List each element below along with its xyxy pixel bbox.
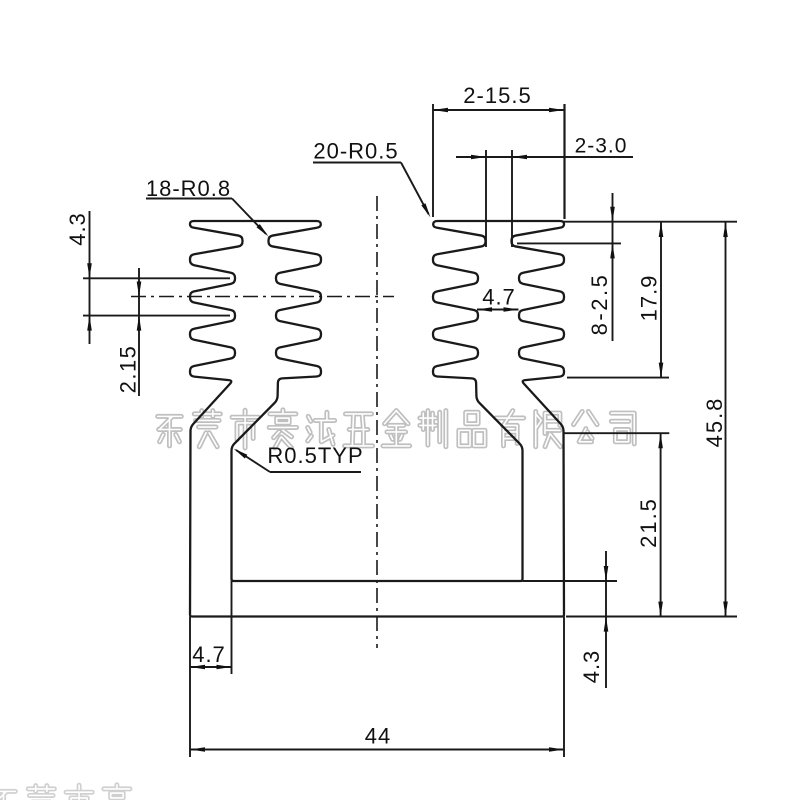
dim 2-15.5 arrow left — [433, 108, 448, 113]
label 18-R0.8 arrow — [256, 224, 268, 236]
svg-text:4.3: 4.3 — [579, 650, 604, 684]
horizontal centerline — [131, 296, 394, 298]
svg-text:4.7: 4.7 — [192, 642, 226, 667]
label R0.5TYP underline — [270, 471, 361, 473]
dim 4.7B arrow right — [217, 665, 232, 670]
dim 4.7B extension line — [231, 581, 233, 674]
svg-text:2-15.5: 2-15.5 — [463, 83, 531, 108]
label 20-R0.5 arrow — [421, 203, 430, 217]
dim 2-15.5 arrow right — [549, 108, 564, 113]
dim 8-2.5 arrow upper — [610, 207, 615, 222]
svg-text:4.7: 4.7 — [482, 285, 516, 310]
dim 21.5 extension line — [564, 432, 669, 434]
dim 44 line — [190, 749, 564, 751]
dim 21.5 line — [660, 433, 662, 616]
vertical centerline — [376, 196, 378, 648]
dim 2-15.5 line — [433, 109, 564, 111]
dim 45.8 arrow upper — [723, 222, 728, 237]
dim 8-2.5 arrow lower — [610, 243, 615, 258]
dim 2-3.0 line — [456, 156, 633, 158]
fin-bottom extension line — [567, 377, 669, 379]
dim 4.7B arrow left — [190, 665, 205, 670]
dim 4.3B line — [605, 551, 607, 688]
dim 4.7B wall extension left — [189, 617, 191, 758]
label R0.5TYP leader — [236, 450, 270, 472]
heatsink profile outline — [190, 221, 564, 617]
svg-text:20-R0.5: 20-R0.5 — [313, 139, 398, 164]
svg-text:8-2.5: 8-2.5 — [587, 273, 612, 336]
svg-text:18-R0.8: 18-R0.8 — [146, 176, 231, 201]
base bottom extension line — [566, 616, 737, 618]
dim 21.5 arrow upper — [658, 433, 663, 448]
dim 4.3 extension line lower — [83, 315, 230, 317]
dim 2-3.0 extension line right — [511, 150, 513, 247]
svg-text:44: 44 — [365, 724, 391, 749]
dim 45.8 arrow lower — [723, 602, 728, 617]
label 20-R0.5 leader — [401, 163, 429, 215]
dim 4.7 line — [477, 309, 519, 311]
dim 4.7 arrow left — [477, 307, 492, 312]
svg-text:45.8: 45.8 — [702, 397, 727, 448]
watermark company name — [158, 410, 635, 448]
dim 2-15.5 extension line right — [563, 104, 565, 219]
label 20-R0.5 underline — [313, 162, 401, 164]
watermark partial bottom row — [0, 785, 131, 800]
svg-text:4.3: 4.3 — [65, 212, 90, 246]
dim 2-3.0 arrow right — [512, 155, 527, 160]
base top extension line — [523, 580, 618, 582]
dim 4.3 arrow lower — [87, 316, 92, 331]
svg-text:21.5: 21.5 — [636, 497, 661, 548]
dim 4.3 line — [89, 211, 91, 344]
top edge extension line — [563, 221, 737, 223]
dim 44 wall extension right — [563, 617, 565, 758]
label 18-R0.8 leader — [232, 199, 266, 235]
svg-text:2.15: 2.15 — [116, 345, 141, 394]
dim 45.8 line — [725, 222, 727, 617]
dim 4.7 arrow right — [504, 307, 519, 312]
dim 44 arrow right — [549, 747, 564, 752]
label R0.5TYP arrow — [234, 449, 248, 459]
svg-text:R0.5TYP: R0.5TYP — [267, 443, 363, 468]
dim 17.9 line — [660, 222, 662, 378]
dim 2-3.0 arrow left — [471, 155, 486, 160]
dim 44 arrow left — [190, 747, 205, 752]
dim 17.9 arrow lower — [659, 363, 664, 378]
dim 4.7B line — [190, 666, 232, 668]
dim 4.3 extension line upper — [83, 277, 230, 279]
label 18-R0.8 underline — [146, 198, 232, 200]
dim 2.15 arrow upper — [137, 282, 142, 297]
dim 2.15 arrow lower — [137, 316, 142, 331]
dim 8-2.5 extension line — [517, 242, 621, 244]
dim 4.3B arrow lower — [604, 617, 609, 632]
dim 2.15 line — [138, 268, 140, 396]
dim 17.9 arrow upper — [659, 222, 664, 237]
dim 4.3 arrow upper — [87, 263, 92, 278]
dim 2-3.0 extension line left — [485, 150, 487, 247]
svg-text:17.9: 17.9 — [637, 275, 662, 322]
dim 2-15.5 extension line left — [432, 104, 434, 217]
dim 21.5 arrow lower — [658, 602, 663, 617]
svg-text:2-3.0: 2-3.0 — [575, 135, 628, 158]
dim 4.3B arrow upper — [604, 566, 609, 581]
dim 8-2.5 line — [612, 193, 614, 341]
